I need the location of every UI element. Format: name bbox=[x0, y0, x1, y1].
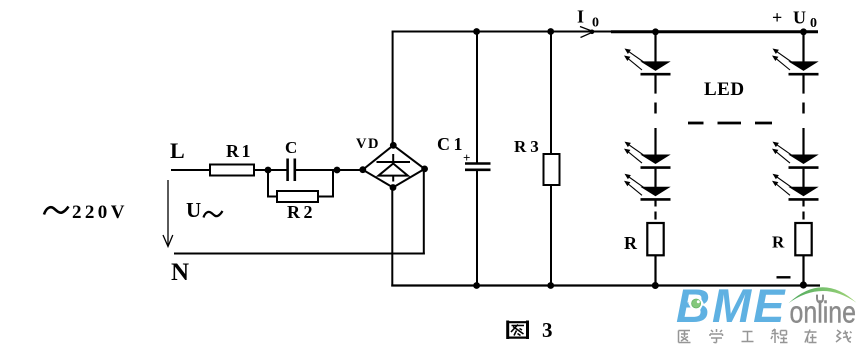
wire R2 branch right bbox=[318, 170, 333, 197]
svg-text:C: C bbox=[285, 138, 297, 157]
wire bridge top vertex to top rail bbox=[392, 32, 394, 146]
char 在 bbox=[805, 330, 817, 343]
dashed wire segment bbox=[802, 103, 804, 114]
LED D5 bbox=[788, 155, 818, 165]
svg-text:R: R bbox=[772, 233, 785, 252]
wire L to R1 bbox=[171, 169, 211, 171]
svg-text:VD: VD bbox=[356, 136, 380, 152]
wire D3 to resistor R bbox=[654, 200, 656, 206]
LED D2 light arrows bbox=[624, 142, 645, 164]
svg-text:3: 3 bbox=[542, 318, 553, 342]
logo chinese characters 医学工程在线 bbox=[679, 329, 852, 343]
svg-text:R2: R2 bbox=[287, 202, 316, 222]
wire D1 to dash bbox=[654, 75, 656, 93]
top rail thick right part bbox=[611, 30, 818, 33]
logo wrench prongs on l bbox=[817, 295, 823, 303]
char 学 bbox=[710, 329, 723, 343]
LED D3 bbox=[640, 187, 670, 197]
svg-text:R: R bbox=[624, 233, 638, 253]
bridge vertex junction dots bbox=[390, 142, 397, 149]
LED D6 light arrows bbox=[772, 174, 793, 196]
LED D4 light arrows bbox=[772, 49, 793, 71]
wire D6 to resistor R bbox=[802, 200, 804, 206]
wire R2 branch left bbox=[268, 170, 277, 197]
resistor R3 branch: wire top bbox=[550, 32, 552, 155]
svg-text:U: U bbox=[186, 198, 201, 222]
wire top to LED D4 bbox=[802, 32, 804, 63]
wire N up to bridge right vertex bbox=[423, 169, 425, 255]
svg-text:R1: R1 bbox=[226, 141, 253, 161]
wire D4 to dash bbox=[802, 75, 804, 93]
dashed link horizontal bbox=[688, 122, 772, 125]
wire R to bottom rail bbox=[802, 255, 804, 285]
svg-text:N: N bbox=[171, 259, 189, 286]
LED D2 bbox=[640, 155, 670, 165]
char 医 bbox=[679, 331, 691, 343]
resistor R2 bbox=[277, 191, 318, 202]
svg-text:C1: C1 bbox=[437, 134, 466, 154]
char 工 bbox=[742, 332, 754, 342]
wire D5 to LED D6 bbox=[802, 169, 804, 188]
bridge inner diode symbol bbox=[377, 154, 411, 182]
junction bottom rail right string bbox=[800, 281, 807, 288]
svg-text:I: I bbox=[577, 7, 584, 27]
dashed wire segment bbox=[654, 103, 656, 114]
junction top rail left string bbox=[652, 28, 659, 35]
arrow U~ (voltage arrow) bbox=[163, 180, 173, 247]
LED D5 light arrows bbox=[772, 142, 793, 164]
svg-text:220V: 220V bbox=[72, 202, 128, 223]
bottom rail (DC -) bbox=[391, 284, 820, 286]
wire C1 bottom bbox=[476, 171, 478, 286]
wire dash to LED D5 bbox=[802, 128, 804, 155]
capacitor C1 branch: wire top bbox=[476, 32, 478, 163]
logo green ball bbox=[692, 299, 701, 308]
resistor R (left) bbox=[647, 223, 663, 255]
wire R to bottom rail bbox=[654, 255, 656, 285]
char 程 bbox=[771, 329, 788, 343]
wire D2 to LED D3 bbox=[654, 169, 656, 188]
LED D1 light arrows bbox=[624, 49, 645, 71]
wire C to node B bbox=[296, 169, 363, 171]
char 线 bbox=[836, 330, 852, 342]
LED D1 bbox=[640, 61, 670, 71]
caption 图 3 bbox=[507, 321, 529, 340]
LED D4 bbox=[788, 61, 818, 71]
bridge rectifier VD bbox=[363, 145, 425, 187]
junction top rail right string bbox=[800, 28, 807, 35]
top rail (DC +) bbox=[392, 31, 611, 33]
svg-text:L: L bbox=[170, 138, 185, 163]
junction top rail C1 bbox=[473, 28, 480, 35]
svg-text:LED: LED bbox=[704, 79, 745, 100]
wire bridge bottom vertex to bottom rail bbox=[391, 188, 393, 287]
wire R1 to node A bbox=[254, 169, 287, 171]
svg-text:U: U bbox=[793, 8, 806, 28]
svg-text:0: 0 bbox=[592, 16, 599, 31]
junction top rail R3 bbox=[547, 28, 554, 35]
svg-text:R3: R3 bbox=[514, 137, 543, 156]
logo green swoosh bbox=[789, 287, 857, 303]
wire N bbox=[174, 253, 425, 255]
junction bottom rail R3 bbox=[547, 282, 554, 289]
svg-text:+: + bbox=[772, 8, 782, 28]
label U tilde subscript bbox=[204, 211, 223, 218]
junction bottom rail left string bbox=[652, 282, 659, 289]
svg-text:0: 0 bbox=[810, 16, 817, 31]
minus terminal label bbox=[777, 276, 791, 278]
wire R3 bottom bbox=[550, 185, 552, 286]
resistor R1 bbox=[210, 165, 254, 176]
LED D3 light arrows bbox=[624, 174, 645, 196]
wire dash to LED D2 bbox=[654, 128, 656, 155]
junction node B bbox=[334, 167, 341, 174]
resistor R3 bbox=[544, 154, 560, 185]
capacitor C bbox=[288, 159, 295, 182]
LED D6 bbox=[788, 187, 818, 197]
current arrow I0 bbox=[580, 27, 594, 38]
junction node A bbox=[265, 167, 272, 174]
label ~220V tilde bbox=[44, 207, 69, 215]
resistor R (right) bbox=[795, 223, 811, 255]
capacitor C1 bbox=[465, 164, 491, 170]
junction bottom rail C1 bbox=[473, 282, 480, 289]
logo hexagon nut in B bbox=[688, 297, 704, 311]
wire top to LED D1 bbox=[654, 32, 656, 63]
